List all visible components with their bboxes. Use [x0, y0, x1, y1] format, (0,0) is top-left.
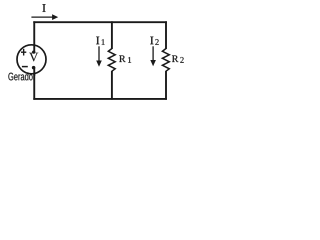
label I1 [96, 37, 104, 45]
wire R2 branch lower [165, 71, 167, 100]
current arrow I2 [150, 46, 156, 66]
wire left vertical upper (source top lead) [33, 21, 35, 52]
wire bottom (node B) [33, 98, 167, 100]
label R1 [119, 55, 131, 62]
current arrow I1 [96, 46, 102, 67]
resistor R1 [108, 49, 115, 72]
node dot: source bottom terminal [32, 66, 36, 70]
current arrow I (top) [31, 14, 58, 20]
wire R2 branch upper [165, 21, 167, 49]
label R2 [172, 55, 184, 62]
label I2 [150, 37, 158, 45]
label Gerador [8, 72, 35, 80]
voltage source V (Gerador) [17, 45, 46, 74]
wire R1 branch upper [111, 21, 113, 49]
label I [43, 4, 46, 12]
wire R1 branch lower [111, 71, 113, 100]
resistor R2 [162, 49, 169, 72]
wire left vertical lower (source bottom lead) [33, 68, 35, 100]
wire top (node A) [33, 21, 167, 23]
node dot: source top terminal [32, 50, 35, 53]
